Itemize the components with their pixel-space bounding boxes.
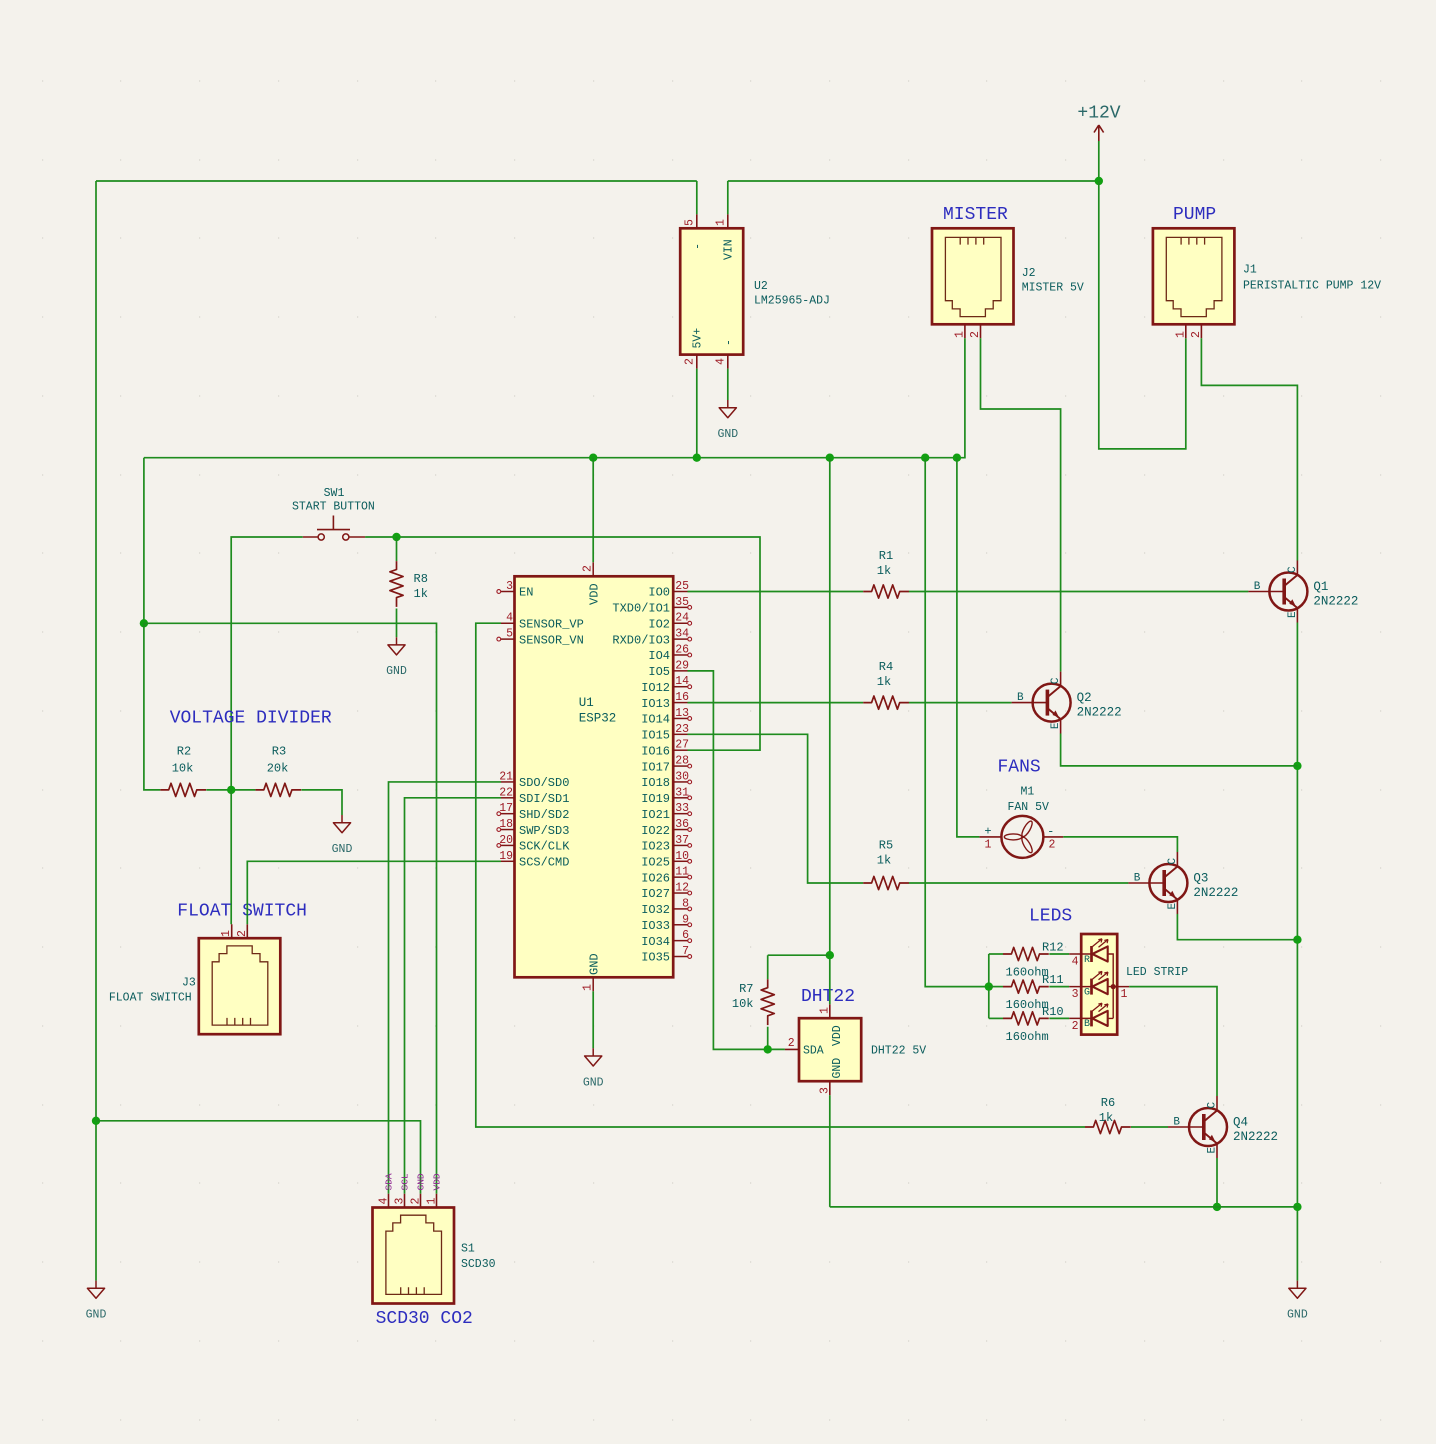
svg-text:1: 1 (953, 331, 966, 338)
svg-text:24: 24 (675, 612, 689, 625)
svg-text:GND: GND (583, 1076, 604, 1089)
svg-text:1k: 1k (1099, 1111, 1113, 1125)
svg-text:2: 2 (582, 565, 595, 572)
junction bus at ESP32 VDD (589, 454, 597, 462)
LED strip internal anode chain (1108, 954, 1114, 1018)
svg-text:SW1: SW1 (324, 487, 345, 500)
wire bus corner down left (143, 458, 145, 624)
svg-text:1: 1 (426, 1198, 439, 1205)
resistor R11 (1003, 980, 1049, 993)
U1 pin 27 IO16 stub (673, 749, 687, 751)
transistor Q3 (NPN 2N2222) (1128, 852, 1187, 914)
svg-text:4: 4 (1072, 955, 1079, 968)
svg-text:LEDS: LEDS (1029, 907, 1072, 927)
svg-text:2N2222: 2N2222 (1313, 595, 1358, 609)
svg-text:SCK/CLK: SCK/CLK (519, 840, 570, 854)
svg-text:20k: 20k (267, 762, 289, 776)
wire bus to DHT22 VDD (829, 458, 831, 1005)
svg-text:IO17: IO17 (641, 760, 670, 774)
svg-text:1k: 1k (877, 564, 891, 578)
junction GND bus right (1293, 1203, 1301, 1211)
svg-text:E: E (1050, 722, 1062, 729)
junction node left drop (140, 619, 148, 627)
svg-text:SCD30: SCD30 (461, 1258, 496, 1271)
DHT22 U3 body (799, 1018, 861, 1081)
+12V power symbol (1077, 104, 1120, 142)
svg-text:2: 2 (1190, 331, 1203, 338)
svg-text:E: E (1167, 903, 1179, 910)
junction Q3 emitter join (1293, 936, 1301, 944)
svg-text:+: + (984, 825, 991, 839)
svg-text:10: 10 (675, 850, 689, 863)
svg-text:-: - (723, 339, 736, 346)
svg-text:GND: GND (86, 1309, 107, 1322)
wire GND bus bottom (830, 1206, 1298, 1208)
svg-text:FLOAT SWITCH: FLOAT SWITCH (109, 992, 192, 1005)
svg-text:2: 2 (684, 358, 697, 365)
svg-text:IO5: IO5 (648, 665, 670, 679)
U1 pin 26 IO4 stub (673, 653, 691, 657)
svg-text:MISTER 5V: MISTER 5V (1022, 282, 1084, 295)
svg-text:SCS/CMD: SCS/CMD (519, 855, 569, 869)
svg-text:IO35: IO35 (641, 951, 670, 965)
ground bottom-left (86, 1281, 107, 1322)
svg-text:DHT22 5V: DHT22 5V (871, 1045, 926, 1058)
svg-text:R5: R5 (879, 839, 893, 853)
svg-text:R: R (1084, 955, 1090, 966)
wire GND rail top segment (96, 180, 697, 182)
wire R5 to Q3 base (909, 882, 1129, 884)
svg-text:1k: 1k (877, 675, 891, 689)
svg-text:20: 20 (499, 834, 513, 847)
wire 12V to PUMP pin1 (1099, 181, 1186, 449)
svg-text:GND: GND (717, 428, 738, 441)
svg-text:27: 27 (675, 739, 689, 752)
svg-text:IO14: IO14 (641, 713, 670, 727)
svg-text:5V+: 5V+ (692, 328, 705, 349)
svg-text:SDA: SDA (803, 1045, 824, 1058)
U1 pin 34 RXD0/IO3 stub (673, 637, 691, 641)
svg-text:J1: J1 (1243, 264, 1257, 277)
transistor Q4 (NPN 2N2222) (1168, 1096, 1227, 1158)
svg-text:12: 12 (675, 882, 689, 895)
LED strip internal junction (1111, 984, 1116, 989)
svg-text:VDD: VDD (588, 583, 602, 605)
svg-text:SENSOR_VN: SENSOR_VN (519, 633, 584, 647)
svg-text:R8: R8 (414, 572, 428, 586)
ESP32 U1 body (515, 576, 674, 977)
svg-text:IO15: IO15 (641, 729, 670, 743)
svg-text:IO16: IO16 (641, 744, 670, 758)
svg-text:SENSOR_VP: SENSOR_VP (519, 617, 584, 631)
svg-text:1: 1 (985, 839, 992, 852)
svg-text:FLOAT SWITCH: FLOAT SWITCH (177, 902, 307, 922)
wire SENSOR_VP to R6 (476, 623, 1085, 1127)
svg-text:Q2: Q2 (1077, 691, 1092, 705)
svg-text:PUMP: PUMP (1173, 205, 1216, 225)
svg-text:VIN: VIN (723, 239, 736, 260)
svg-text:R2: R2 (177, 745, 191, 759)
wire SCD30 SCL to SDI/SD1 (405, 798, 502, 1194)
resistor R10 (1003, 1012, 1049, 1025)
svg-text:FAN 5V: FAN 5V (1007, 801, 1049, 814)
LED symbol 3 in strip (1092, 1003, 1109, 1026)
svg-text:17: 17 (499, 802, 513, 815)
svg-text:34: 34 (675, 628, 689, 641)
svg-text:-: - (692, 243, 705, 250)
wire U1 GND down (592, 991, 594, 1048)
svg-text:IO25: IO25 (641, 855, 670, 869)
svg-text:2N2222: 2N2222 (1193, 886, 1238, 900)
svg-text:37: 37 (675, 834, 689, 847)
U1 pin 14 IO12 stub (673, 685, 691, 689)
U1 pin 28 IO17 stub (673, 764, 691, 768)
wire manifold to R10 (989, 1017, 1003, 1019)
svg-text:30: 30 (675, 770, 689, 783)
svg-text:GND: GND (831, 1058, 844, 1079)
svg-text:2: 2 (969, 331, 982, 338)
U1 GND pin stub (592, 977, 594, 991)
U1 pin 6 IO34 stub (673, 939, 691, 943)
svg-text:IO2: IO2 (648, 617, 670, 631)
svg-text:IO26: IO26 (641, 871, 670, 885)
svg-text:11: 11 (675, 866, 689, 879)
svg-text:1k: 1k (414, 587, 428, 601)
svg-text:GND: GND (416, 1173, 427, 1190)
junction Q1/Q2 emitters (1293, 762, 1301, 770)
wire DHT22 GND to bus (829, 1095, 831, 1207)
svg-text:B: B (1254, 581, 1261, 593)
wire Q4 emitter down (1216, 1158, 1218, 1207)
junction Q4 emitter at GND bus (1213, 1203, 1221, 1211)
wire U2 5V+ down to bus (696, 369, 698, 458)
svg-text:SDI/SD1: SDI/SD1 (519, 792, 569, 806)
U1 pin 24 IO2 stub (673, 621, 691, 625)
U1 pin 21 SDO/SD0 stub (501, 781, 515, 783)
svg-text:R3: R3 (272, 745, 286, 759)
wire SCD30 SDA to SDO/SD0 (389, 782, 502, 1194)
svg-text:IO4: IO4 (648, 649, 670, 663)
wire J3 pin2 to SCS/CMD (247, 861, 501, 924)
svg-text:IO32: IO32 (641, 903, 670, 917)
J2 pin stubs (965, 324, 981, 338)
wire R7 bottom (767, 1027, 769, 1050)
svg-text:SHD/SD2: SHD/SD2 (519, 808, 569, 822)
wire R4 to Q2 base (909, 702, 1012, 704)
svg-text:E: E (1207, 1147, 1219, 1154)
wire R10 to LED strip (1049, 1017, 1069, 1019)
svg-text:4: 4 (378, 1198, 391, 1205)
svg-text:33: 33 (675, 802, 689, 815)
svg-text:C: C (1167, 858, 1179, 865)
svg-text:+12V: +12V (1077, 104, 1120, 124)
svg-text:C: C (1050, 677, 1062, 684)
svg-text:IO12: IO12 (641, 681, 670, 695)
U1 pin 35 TXD0/IO1 stub (673, 605, 691, 609)
wire LED pin1 to Q4 collector (1129, 987, 1217, 1096)
svg-text:2: 2 (236, 930, 249, 937)
svg-text:SCD30 CO2: SCD30 CO2 (376, 1309, 473, 1329)
svg-text:1: 1 (1174, 331, 1187, 338)
svg-text:5: 5 (506, 628, 513, 641)
resistor R5 (863, 876, 909, 889)
svg-text:2N2222: 2N2222 (1077, 706, 1122, 720)
wire PUMP pin2 to Q1 collector (1201, 338, 1297, 560)
svg-text:28: 28 (675, 755, 689, 768)
U1 pin 10 IO25 stub (673, 859, 691, 863)
svg-text:IO21: IO21 (641, 808, 670, 822)
svg-text:RXD0/IO3: RXD0/IO3 (612, 633, 670, 647)
wire U2 GND (727, 369, 729, 400)
U1 pin 3 EN stub (497, 590, 515, 594)
wire R7 top tap (768, 955, 830, 979)
U1 pin 13 IO14 stub (673, 717, 691, 721)
LED strip D1 body (1081, 934, 1117, 1035)
wire 5V to LED resistor manifold (925, 458, 989, 987)
junction R7 top at VDD (826, 951, 834, 959)
svg-text:2: 2 (788, 1037, 795, 1050)
svg-text:R12: R12 (1042, 941, 1064, 955)
svg-text:10k: 10k (732, 997, 754, 1011)
svg-text:IO33: IO33 (641, 919, 670, 933)
junction LED manifold (985, 982, 993, 990)
svg-text:S1: S1 (461, 1243, 475, 1256)
svg-text:3: 3 (506, 580, 513, 593)
svg-text:J2: J2 (1022, 267, 1036, 280)
svg-text:M1: M1 (1020, 786, 1034, 799)
U1 pin 19 SCS/CMD stub (501, 860, 515, 862)
svg-text:MISTER: MISTER (943, 205, 1008, 225)
svg-text:PERISTALTIC PUMP 12V: PERISTALTIC PUMP 12V (1243, 280, 1381, 293)
svg-text:IO0: IO0 (648, 586, 670, 600)
svg-text:19: 19 (499, 850, 513, 863)
wire R11 to LED strip (1049, 986, 1069, 988)
wire Q2 emitter join (1061, 734, 1298, 766)
motor M1 fan (1001, 816, 1043, 858)
junction bus at DHT22 VDD drop (826, 454, 834, 462)
U1 pin 7 IO35 stub (673, 955, 691, 959)
resistor R6 (1085, 1120, 1131, 1133)
U1 pin 18 SWP/SD3 stub (497, 828, 515, 832)
S1 pin stubs (389, 1194, 437, 1208)
svg-text:4: 4 (715, 358, 728, 365)
svg-text:6: 6 (682, 929, 689, 942)
wire U2 pin1 VIN tap (727, 181, 729, 214)
svg-text:R4: R4 (879, 660, 893, 674)
ground U2 (717, 400, 738, 441)
svg-text:IO23: IO23 (641, 840, 670, 854)
svg-text:U1: U1 (579, 696, 594, 710)
wire MISTER pin2 to Q2 collector (981, 338, 1061, 671)
svg-text:G: G (1084, 987, 1090, 998)
svg-text:2N2222: 2N2222 (1233, 1130, 1278, 1144)
U1 pin 16 IO13 stub (673, 702, 687, 704)
svg-text:21: 21 (499, 770, 513, 783)
junction SW1 output at R8 (392, 533, 400, 541)
svg-text:TXD0/IO1: TXD0/IO1 (612, 602, 670, 616)
U1 pin 29 IO5 stub (673, 670, 687, 672)
svg-text:B: B (1134, 873, 1141, 885)
svg-text:R6: R6 (1101, 1096, 1115, 1110)
wire IO13 to R4 (688, 702, 864, 704)
svg-text:C: C (1207, 1102, 1219, 1109)
svg-text:1: 1 (582, 984, 595, 991)
J3 pin stubs (232, 924, 248, 938)
svg-text:SDA: SDA (384, 1173, 395, 1190)
M1 pin stubs (979, 836, 1063, 838)
svg-text:ESP32: ESP32 (579, 712, 617, 726)
svg-text:1: 1 (220, 930, 233, 937)
resistor R4 (863, 696, 909, 709)
svg-text:R11: R11 (1042, 973, 1064, 987)
svg-text:IO18: IO18 (641, 776, 670, 790)
wire node to SCD30 VDD (144, 623, 437, 1193)
U1 pin 5 SENSOR_VN stub (497, 637, 515, 641)
svg-text:4: 4 (506, 612, 513, 625)
svg-text:C: C (1287, 566, 1299, 573)
svg-text:2: 2 (1072, 1020, 1079, 1033)
wire LED manifold vertical (988, 954, 990, 1018)
U1 pin 9 IO33 stub (673, 923, 691, 927)
U1 pin 31 IO19 stub (673, 796, 691, 800)
connector S1 SCD30 body (373, 1208, 455, 1304)
connector J3 FLOAT SWITCH body (199, 938, 280, 1034)
resistor R3 (255, 783, 301, 796)
svg-text:START BUTTON: START BUTTON (292, 501, 375, 514)
U1 pin 4 SENSOR_VP stub (501, 622, 515, 624)
wire divider to J3 pin1 (230, 790, 232, 924)
U2 pin stubs (697, 214, 728, 368)
U1 VDD pin stub (592, 562, 594, 576)
junction divider tap (227, 786, 235, 794)
resistor R12 (1003, 947, 1049, 960)
U1 pin 33 IO21 stub (673, 812, 691, 816)
connector J1 PUMP body (1153, 228, 1235, 324)
svg-text:VOLTAGE DIVIDER: VOLTAGE DIVIDER (170, 709, 332, 729)
switch SW1 (303, 516, 365, 541)
LED symbol 1 in strip (1092, 939, 1109, 962)
U1 pin 23 IO15 stub (673, 733, 687, 735)
wire MISTER pin1 to 5V bus (144, 338, 965, 457)
wire U2 pin5 tap (696, 181, 698, 214)
svg-text:SCL: SCL (400, 1173, 411, 1190)
junction +12V rail (1095, 177, 1103, 185)
svg-text:GND: GND (1287, 1309, 1308, 1322)
svg-text:1k: 1k (877, 854, 891, 868)
svg-text:GND: GND (588, 953, 602, 975)
svg-text:VDD: VDD (432, 1173, 443, 1190)
svg-text:Q1: Q1 (1313, 580, 1328, 594)
svg-text:31: 31 (675, 786, 689, 799)
connector J2 MISTER body (932, 228, 1014, 324)
svg-text:B: B (1173, 1117, 1180, 1129)
resistor R8 (390, 561, 403, 607)
svg-text:29: 29 (675, 659, 689, 672)
wire +12V stem (1098, 141, 1100, 181)
svg-text:36: 36 (675, 818, 689, 831)
resistor R2 (160, 783, 206, 796)
wire manifold to R11 (989, 986, 1003, 988)
svg-text:14: 14 (675, 675, 689, 688)
svg-text:IO34: IO34 (641, 935, 670, 949)
svg-text:SWP/SD3: SWP/SD3 (519, 824, 569, 838)
wire manifold to R12 (989, 953, 1003, 955)
ground R3 (332, 815, 353, 856)
svg-text:FANS: FANS (998, 758, 1041, 778)
U1 pin 37 IO23 stub (673, 844, 691, 848)
svg-text:8: 8 (682, 897, 689, 910)
svg-text:25: 25 (675, 580, 689, 593)
svg-text:U2: U2 (754, 280, 768, 293)
svg-text:GND: GND (332, 843, 353, 856)
wire R6 to Q4 base (1131, 1126, 1168, 1128)
wire 12V rail top segment (728, 180, 1099, 182)
svg-text:E: E (1287, 611, 1299, 618)
wire IO5 to DHT22 SDA (688, 671, 785, 1050)
svg-text:Q3: Q3 (1193, 872, 1208, 886)
transistor Q2 (NPN 2N2222) (1012, 672, 1071, 734)
svg-text:3: 3 (394, 1198, 407, 1205)
svg-text:5: 5 (684, 219, 697, 226)
wire left GND rail (95, 181, 97, 1281)
LED strip pin stubs (1069, 954, 1129, 1018)
svg-text:EN: EN (519, 586, 533, 600)
svg-text:DHT22: DHT22 (801, 987, 855, 1007)
wire R8 bottom to GND (396, 609, 398, 638)
wire IO15 to R5 (688, 734, 864, 883)
ground bottom-right (1287, 1281, 1308, 1322)
wire SW1 left to float switch net (231, 537, 303, 790)
svg-text:18: 18 (499, 818, 513, 831)
svg-text:3: 3 (818, 1087, 831, 1094)
svg-text:LED STRIP: LED STRIP (1126, 966, 1188, 979)
svg-text:2: 2 (410, 1198, 423, 1205)
svg-text:GND: GND (386, 665, 407, 678)
svg-text:160ohm: 160ohm (1006, 1030, 1049, 1044)
U1 pin 36 IO22 stub (673, 828, 691, 832)
svg-text:IO19: IO19 (641, 792, 670, 806)
wire R2 to R3 (206, 789, 255, 791)
wire IO0 to R1 (688, 591, 864, 593)
svg-text:IO27: IO27 (641, 887, 670, 901)
svg-text:26: 26 (675, 643, 689, 656)
LED symbol 2 in strip (1092, 971, 1109, 994)
svg-text:3: 3 (1072, 988, 1079, 1001)
svg-text:2: 2 (1049, 839, 1056, 852)
svg-text:23: 23 (675, 723, 689, 736)
U1 pin 20 SCK/CLK stub (497, 844, 515, 848)
svg-text:35: 35 (675, 596, 689, 609)
svg-text:Q4: Q4 (1233, 1116, 1248, 1130)
svg-text:IO13: IO13 (641, 697, 670, 711)
transistor Q1 (NPN 2N2222) (1248, 561, 1307, 623)
svg-text:B: B (1084, 1019, 1090, 1030)
U1 pin 17 SHD/SD2 stub (497, 812, 515, 816)
junction bus at U2 5V+ (693, 454, 701, 462)
svg-text:IO22: IO22 (641, 824, 670, 838)
svg-text:16: 16 (675, 691, 689, 704)
regulator U2 body (680, 228, 743, 354)
wire R12 to LED strip (1049, 953, 1069, 955)
svg-text:1: 1 (818, 1007, 831, 1014)
svg-text:1: 1 (1121, 988, 1128, 1001)
resistor R1 (863, 585, 909, 598)
U1 pin 12 IO27 stub (673, 891, 691, 895)
junction left rail to SCD30 GND (92, 1117, 100, 1125)
wire SCD30 GND to left rail (96, 1121, 421, 1194)
svg-text:9: 9 (682, 913, 689, 926)
svg-text:J3: J3 (182, 977, 196, 990)
